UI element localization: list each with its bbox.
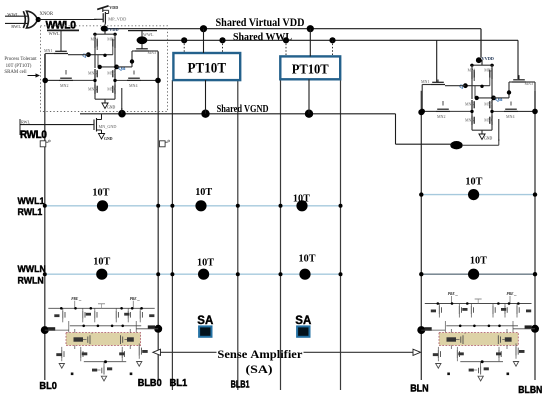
- svg-text:RWL1: RWL1: [18, 207, 43, 217]
- svg-text:10T: 10T: [470, 255, 487, 266]
- svg-text:GND: GND: [107, 106, 115, 110]
- svg-text:BLB0: BLB0: [138, 378, 162, 389]
- svg-text:PT10T: PT10T: [292, 62, 330, 77]
- svg-text:10T: 10T: [197, 258, 214, 269]
- svg-text:MN3: MN3: [148, 50, 156, 55]
- svg-text:MN6: MN6: [465, 118, 473, 123]
- svg-text:10T: 10T: [92, 187, 109, 198]
- svg-text:MN4: MN4: [506, 114, 514, 119]
- svg-text:VDD: VDD: [109, 5, 118, 10]
- svg-text:MN8: MN8: [484, 118, 492, 123]
- svg-text:BLN: BLN: [410, 384, 429, 395]
- svg-text:WWL: WWL: [49, 31, 60, 36]
- svg-text:Shared VGND: Shared VGND: [217, 104, 269, 115]
- svg-text:WWL: WWL: [7, 12, 19, 17]
- svg-text:MN_GND: MN_GND: [99, 124, 117, 129]
- svg-text:GND: GND: [484, 137, 492, 141]
- svg-text:Process Tolerant: Process Tolerant: [4, 57, 37, 62]
- svg-text:10T (PT10T): 10T (PT10T): [6, 64, 32, 69]
- svg-text:RWL: RWL: [21, 120, 31, 125]
- svg-text:RWL: RWL: [11, 24, 21, 29]
- svg-text:BL0: BL0: [39, 381, 57, 392]
- svg-text:XNOR: XNOR: [40, 12, 54, 17]
- svg-text:SRAM cell: SRAM cell: [4, 70, 27, 75]
- svg-text:MP2: MP2: [484, 68, 492, 73]
- svg-text:MN5: MN5: [88, 71, 96, 76]
- svg-text:SA: SA: [197, 315, 213, 327]
- svg-text:RWLN: RWLN: [18, 275, 44, 285]
- svg-text:Shared Virtual VDD: Shared Virtual VDD: [216, 17, 305, 29]
- svg-text:BLBN: BLBN: [518, 385, 542, 396]
- svg-text:RWL0: RWL0: [20, 129, 47, 141]
- svg-text:10T: 10T: [195, 187, 212, 198]
- svg-text:Q: Q: [82, 53, 86, 59]
- svg-text:BLB1: BLB1: [231, 379, 250, 390]
- svg-text:MP_VDD: MP_VDD: [108, 16, 126, 21]
- svg-text:WWLN: WWLN: [18, 264, 46, 274]
- svg-text:10T: 10T: [465, 177, 482, 188]
- svg-text:PRE: PRE: [507, 292, 515, 296]
- svg-text:MP2: MP2: [107, 37, 115, 42]
- svg-text:10T: 10T: [93, 256, 110, 267]
- svg-text:BL1: BL1: [170, 378, 188, 389]
- svg-text:Sense Amplifier: Sense Amplifier: [217, 347, 303, 361]
- svg-text:MN4: MN4: [129, 83, 137, 88]
- svg-text:MN7: MN7: [484, 102, 492, 107]
- svg-text:(SA): (SA): [246, 362, 273, 376]
- svg-text:MN8: MN8: [107, 87, 115, 92]
- svg-text:MN1: MN1: [421, 79, 429, 84]
- svg-text:VVDD: VVDD: [482, 56, 494, 61]
- svg-text:PRE: PRE: [448, 292, 456, 296]
- svg-text:PRE: PRE: [130, 297, 138, 301]
- svg-text:QB: QB: [118, 67, 126, 72]
- svg-text:MN1: MN1: [44, 48, 52, 53]
- svg-text:VVDD: VVDD: [106, 27, 118, 32]
- svg-text:10T: 10T: [299, 254, 316, 265]
- svg-text:MN5: MN5: [465, 102, 473, 107]
- svg-text:MP1: MP1: [468, 68, 476, 73]
- svg-text:MN2: MN2: [60, 83, 68, 88]
- svg-text:MN7: MN7: [107, 71, 115, 76]
- svg-text:MN2: MN2: [437, 114, 445, 119]
- svg-text:MN6: MN6: [88, 87, 96, 92]
- svg-text:MN3: MN3: [525, 81, 533, 86]
- svg-text:MP1: MP1: [91, 37, 99, 42]
- svg-text:WWL: WWL: [143, 32, 154, 37]
- svg-text:Q: Q: [459, 84, 463, 90]
- svg-text:PT10T: PT10T: [188, 61, 227, 77]
- svg-text:SA: SA: [295, 315, 311, 327]
- svg-text:10T: 10T: [293, 194, 310, 205]
- svg-text:QB: QB: [495, 98, 503, 103]
- svg-text:GND: GND: [104, 137, 113, 141]
- svg-text:WWL1: WWL1: [18, 196, 45, 206]
- svg-text:PRE: PRE: [71, 297, 79, 301]
